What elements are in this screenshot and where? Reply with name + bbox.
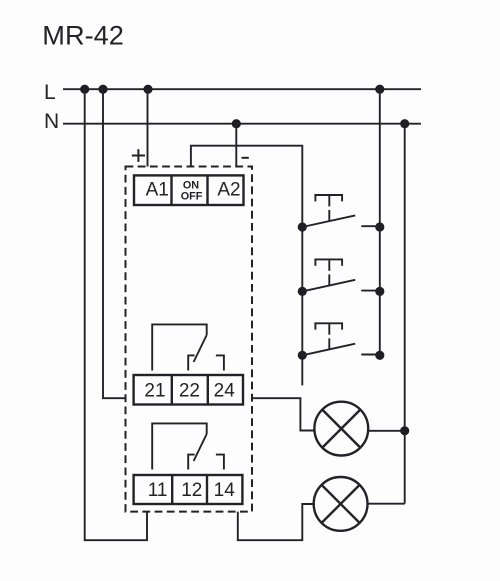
svg-text:N: N — [44, 110, 59, 133]
switch feed wire from L — [379, 89, 381, 355]
relay contact for 21-22-24 — [152, 324, 224, 370]
junction dot L x=380 — [375, 85, 384, 94]
relay contact for 11-12-14 — [152, 423, 224, 469]
svg-text:21: 21 — [144, 380, 165, 401]
wire N to terminal A2 — [235, 124, 237, 167]
wire L to terminal A1 — [147, 89, 149, 166]
svg-text:11: 11 — [148, 480, 168, 501]
junction dot L x=103 — [98, 85, 107, 94]
svg-text:L: L — [44, 81, 56, 104]
wire N bus — [63, 123, 421, 125]
svg-text:24: 24 — [214, 380, 236, 401]
wire terminal 14 to lamp E2 — [238, 504, 314, 540]
plus sign at A1 — [132, 149, 145, 162]
terminal strip A1 / ON-OFF / A2 — [134, 175, 244, 205]
terminal strip 21 / 22 / 24 — [134, 375, 243, 405]
junction dot L x=148 — [143, 85, 152, 94]
control wire to ON/OFF terminal and push-button column — [191, 146, 302, 386]
svg-text:MR-42: MR-42 — [42, 20, 124, 51]
lamp E1 — [314, 402, 368, 456]
wire lamp E1 to neutral — [368, 430, 405, 432]
junction dot lamp E1 at neutral — [400, 426, 409, 435]
wire lamp E2 to neutral — [368, 503, 405, 505]
svg-text:OFF: OFF — [181, 190, 203, 202]
wire left outer L-to-terminal-11 — [85, 89, 147, 540]
wire L to terminal 21 — [103, 89, 126, 398]
push-button S1 — [298, 195, 385, 232]
neutral drop wire to lamps — [404, 124, 406, 504]
lamp E2 — [314, 477, 368, 531]
svg-text:22: 22 — [179, 380, 200, 401]
terminal strip 11 / 12 / 14 — [134, 475, 243, 504]
wire L bus — [63, 88, 421, 90]
svg-text:A2: A2 — [217, 180, 240, 201]
push-button S2 — [298, 259, 385, 296]
wire terminal 24 to lamp E1 — [253, 398, 315, 430]
svg-text:A1: A1 — [146, 180, 169, 201]
dashed enclosure MR-42 device — [126, 167, 253, 512]
svg-text:14: 14 — [214, 480, 236, 501]
minus sign at A2 — [242, 157, 249, 159]
push-button S3 — [298, 323, 385, 360]
junction dot N x=236 — [232, 119, 241, 128]
junction dot L x=85 — [80, 85, 89, 94]
junction dot N x=405 — [400, 119, 409, 128]
svg-text:12: 12 — [181, 480, 202, 501]
